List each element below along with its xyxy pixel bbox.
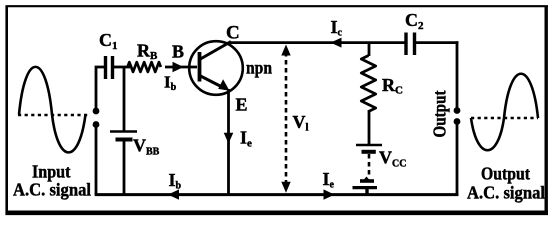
node output lower dot	[454, 118, 461, 125]
arrowhead VL up	[281, 45, 290, 56]
battery VCC cell1 long plate	[356, 144, 382, 147]
transistor emitter arrowhead	[218, 79, 229, 91]
input sine baseline (dashed)	[18, 114, 88, 117]
capacitor C1	[106, 56, 113, 79]
svg-text:A.C. signal: A.C. signal	[13, 180, 91, 200]
arrow emitter current down	[224, 133, 234, 144]
arrow Ib on bottom rail	[168, 189, 179, 199]
wire bottom rail	[95, 193, 459, 196]
wire RC to VCC	[368, 110, 371, 146]
battery VBB wire from input line	[123, 67, 126, 131]
output sine baseline (dashed)	[471, 117, 538, 120]
border frame left	[5, 6, 8, 216]
transistor collector stroke	[200, 42, 232, 60]
battery VBB short plate	[116, 138, 133, 142]
svg-text:B: B	[172, 42, 184, 62]
resistor RC stub from rail	[368, 43, 371, 56]
resistor RC	[361, 56, 375, 112]
wire output vertical lower	[456, 124, 459, 196]
svg-text:C: C	[226, 23, 240, 44]
battery VCC cell1 short plate	[362, 150, 376, 154]
wire input lower vertical	[95, 127, 98, 195]
transistor base bar	[198, 52, 202, 82]
border frame top	[6, 5, 549, 7]
wire VCC to ground rail	[365, 188, 368, 195]
transistor emitter stroke	[200, 76, 226, 89]
svg-text:Input: Input	[32, 162, 71, 182]
battery VCC dashed link	[368, 154, 371, 178]
battery VCC cell2 long plate	[353, 186, 378, 189]
svg-text:npn: npn	[246, 58, 272, 78]
VL dashed measure line	[285, 52, 288, 186]
wire input top horizontal	[96, 67, 104, 108]
node input lower dot	[93, 121, 100, 128]
node output upper dot	[454, 107, 461, 114]
battery VCC cell2 short plate	[363, 177, 370, 181]
svg-text:Output: Output	[481, 164, 530, 184]
arrow collector current Ic	[331, 38, 342, 48]
battery VBB long plate	[110, 130, 137, 133]
svg-text:Output: Output	[430, 91, 450, 138]
wire top rail right of C2	[416, 41, 458, 44]
svg-text:A.C. signal: A.C. signal	[467, 183, 545, 203]
arrowhead VL down	[281, 182, 290, 193]
capacitor C2	[406, 33, 415, 56]
output sine wave	[471, 74, 538, 151]
transistor Q1 circle	[189, 41, 243, 95]
wire C1 to resistor	[114, 66, 130, 69]
wire resistor to base	[165, 66, 197, 69]
node input upper dot	[93, 108, 100, 115]
border frame bottom	[6, 211, 549, 216]
resistor RB	[128, 62, 161, 72]
arrow base current into transistor	[173, 62, 184, 72]
border frame right	[545, 6, 548, 216]
arrow Ie on bottom rail	[324, 189, 335, 199]
wire emitter vertical	[227, 89, 230, 196]
input sine wave	[19, 67, 86, 153]
wire VBB to bottom rail	[123, 141, 126, 196]
wire output vertical upper	[456, 41, 459, 108]
svg-text:E: E	[236, 95, 248, 115]
wire top rail left of C2	[230, 41, 405, 44]
